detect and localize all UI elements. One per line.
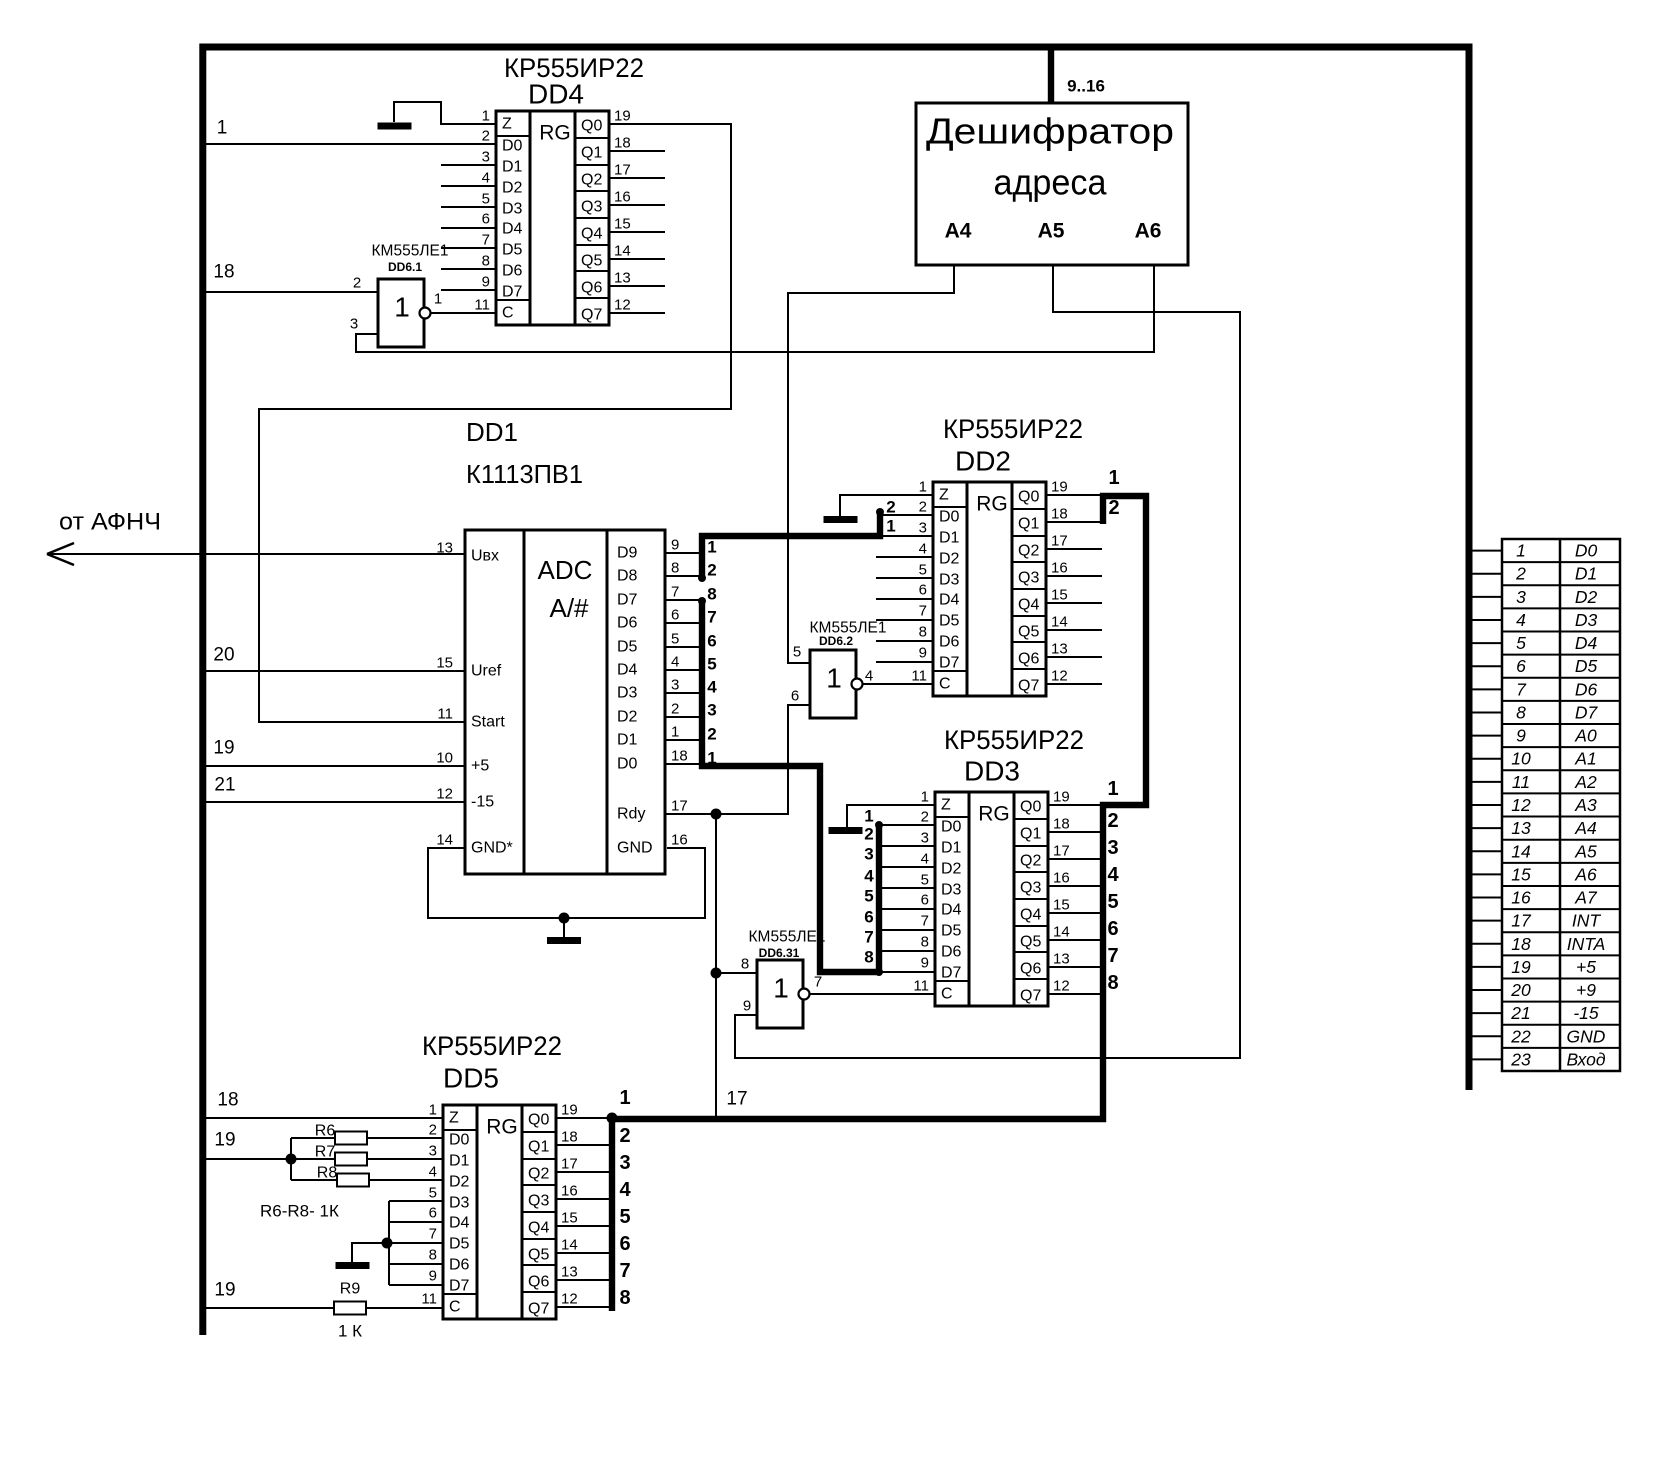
svg-text:Q4: Q4 bbox=[581, 226, 602, 243]
svg-text:D7: D7 bbox=[617, 592, 638, 609]
svg-text:7: 7 bbox=[921, 913, 929, 930]
svg-text:6: 6 bbox=[919, 582, 927, 599]
wire: DD2 output stub Q7 bbox=[1046, 683, 1102, 685]
svg-text:1: 1 bbox=[826, 663, 842, 694]
svg-text:17: 17 bbox=[561, 1156, 578, 1173]
svg-text:A6: A6 bbox=[1135, 220, 1162, 243]
svg-text:13: 13 bbox=[1511, 818, 1531, 838]
wire: DD3 output stub Q5 bbox=[1048, 939, 1103, 941]
svg-text:D3: D3 bbox=[449, 1195, 470, 1212]
svg-text:Z: Z bbox=[502, 116, 512, 133]
svg-text:22: 22 bbox=[1510, 1026, 1531, 1046]
svg-text:8: 8 bbox=[864, 948, 873, 967]
svg-text:D6: D6 bbox=[617, 615, 638, 632]
svg-text:D1: D1 bbox=[941, 840, 962, 857]
svg-text:7: 7 bbox=[707, 608, 716, 627]
svg-text:6: 6 bbox=[1516, 656, 1526, 676]
wire: DD3 output stub Q3 bbox=[1048, 885, 1103, 887]
svg-text:10: 10 bbox=[436, 750, 453, 767]
svg-text:6: 6 bbox=[864, 908, 873, 927]
svg-text:D5: D5 bbox=[502, 242, 523, 259]
svg-text:RG: RG bbox=[976, 493, 1008, 516]
svg-text:RG: RG bbox=[486, 1116, 518, 1139]
wire: DD3 input stub D4 bbox=[879, 908, 935, 910]
svg-text:21: 21 bbox=[214, 775, 235, 796]
svg-text:D2: D2 bbox=[939, 551, 960, 568]
svg-text:17: 17 bbox=[614, 162, 631, 179]
svg-text:D3: D3 bbox=[502, 201, 523, 218]
wire: DD1 output stub D4 bbox=[665, 669, 702, 671]
svg-text:C: C bbox=[939, 676, 951, 693]
wire: DD5 output stub Q4 bbox=[556, 1225, 612, 1227]
svg-text:13: 13 bbox=[614, 270, 631, 287]
svg-text:12: 12 bbox=[1053, 978, 1070, 995]
svg-text:12: 12 bbox=[1051, 668, 1068, 685]
svg-text:D8: D8 bbox=[617, 568, 638, 585]
svg-text:D9: D9 bbox=[617, 545, 638, 562]
wire: connector pin 14 stub bbox=[1469, 850, 1502, 852]
svg-text:17: 17 bbox=[726, 1089, 747, 1110]
svg-text:18: 18 bbox=[561, 1129, 578, 1146]
svg-text:КМ555ЛЕ1: КМ555ЛЕ1 bbox=[749, 929, 826, 946]
svg-text:19: 19 bbox=[1053, 789, 1070, 806]
wire: DD2 output stub Q2 bbox=[1046, 548, 1102, 550]
svg-text:A2: A2 bbox=[1574, 772, 1597, 792]
svg-text:Q0: Q0 bbox=[1018, 489, 1039, 506]
wire: connector pin 11 stub bbox=[1469, 781, 1502, 783]
svg-text:4: 4 bbox=[482, 170, 490, 187]
svg-text:D6: D6 bbox=[939, 634, 960, 651]
svg-text:4: 4 bbox=[865, 668, 873, 685]
svg-text:23: 23 bbox=[1510, 1049, 1531, 1069]
svg-text:2: 2 bbox=[919, 499, 927, 516]
wire: connector pin 3 stub bbox=[1469, 596, 1502, 598]
svg-text:D5: D5 bbox=[941, 923, 962, 940]
svg-text:19: 19 bbox=[214, 1130, 235, 1151]
svg-text:D3: D3 bbox=[939, 572, 960, 589]
svg-text:1: 1 bbox=[864, 807, 873, 826]
svg-text:5: 5 bbox=[707, 655, 716, 674]
svg-text:D1: D1 bbox=[449, 1153, 470, 1170]
ground symbol at DD4 pin Z bbox=[394, 102, 496, 124]
svg-text:2: 2 bbox=[429, 1122, 437, 1139]
svg-text:D6: D6 bbox=[941, 944, 962, 961]
wire: DD3 output stub Q1 bbox=[1048, 831, 1103, 833]
wire: connector pin 7 stub bbox=[1469, 688, 1502, 690]
wire: Rdy down to DD6.31 pin8 and INT bus bbox=[715, 814, 717, 1118]
wire: DD3 output stub Q0 bbox=[1048, 804, 1103, 806]
svg-text:D4: D4 bbox=[449, 1215, 470, 1232]
wire: DD1 output stub D3 bbox=[665, 692, 702, 694]
svg-text:17: 17 bbox=[1051, 533, 1068, 550]
wire: DD1 D9,D8 stubs bbox=[665, 552, 702, 554]
svg-text:5: 5 bbox=[619, 1206, 630, 1228]
svg-text:12: 12 bbox=[436, 786, 453, 803]
svg-text:D2: D2 bbox=[502, 180, 523, 197]
svg-text:19: 19 bbox=[561, 1102, 578, 1119]
junction on Rdy wire bbox=[711, 809, 722, 820]
svg-text:8: 8 bbox=[1107, 972, 1118, 994]
wire: A4 output to DD6.2 pin5 bbox=[788, 265, 954, 663]
wire: connector pin 23 stub bbox=[1469, 1058, 1502, 1060]
bus: DD1 D9,D8 to DD2 D0,D1 (thick) bbox=[702, 513, 880, 578]
svg-text:4: 4 bbox=[707, 678, 717, 697]
wire: DD4 output stub Q3 bbox=[609, 204, 665, 206]
svg-text:19: 19 bbox=[214, 1280, 235, 1301]
wire: DD1 output stub D5 bbox=[665, 646, 702, 648]
svg-text:R9: R9 bbox=[340, 1281, 361, 1298]
svg-text:1: 1 bbox=[921, 789, 929, 806]
svg-text:13: 13 bbox=[1051, 641, 1068, 658]
svg-text:Z: Z bbox=[939, 487, 949, 504]
wire: DD4 output stub Q6 bbox=[609, 285, 665, 287]
svg-text:2: 2 bbox=[671, 701, 679, 718]
inverter DD6.1 КМ555ЛЕ1 bbox=[350, 243, 449, 348]
svg-text:+5: +5 bbox=[1576, 957, 1596, 977]
svg-text:КМ555ЛЕ1: КМ555ЛЕ1 bbox=[372, 243, 449, 260]
svg-text:6: 6 bbox=[429, 1205, 437, 1222]
svg-text:D4: D4 bbox=[941, 902, 962, 919]
svg-text:Q0: Q0 bbox=[581, 118, 602, 135]
svg-text:C: C bbox=[941, 986, 953, 1003]
svg-text:5: 5 bbox=[864, 887, 873, 906]
svg-text:5: 5 bbox=[1516, 633, 1526, 653]
wire: DD4 output stub Q7 bbox=[609, 312, 665, 314]
wire: DD4 input stub D2 (pin 4) bbox=[441, 185, 496, 187]
svg-text:3: 3 bbox=[429, 1143, 437, 1160]
svg-text:18: 18 bbox=[217, 1090, 238, 1111]
svg-text:D3: D3 bbox=[1575, 610, 1598, 630]
svg-text:D0: D0 bbox=[941, 819, 962, 836]
svg-text:Q0: Q0 bbox=[1020, 799, 1041, 816]
bus: DD5 outputs (thick) bbox=[609, 1114, 615, 1311]
svg-text:D2: D2 bbox=[1575, 587, 1598, 607]
svg-text:1: 1 bbox=[394, 292, 410, 323]
wire: DD3 input stub D0 bbox=[879, 824, 935, 826]
svg-text:A6: A6 bbox=[1574, 864, 1597, 884]
wire: junction to DD6.31 pin8 bbox=[716, 972, 757, 974]
ground symbol at DD5 inputs bbox=[352, 1243, 387, 1262]
svg-text:2: 2 bbox=[707, 725, 716, 744]
svg-text:9: 9 bbox=[743, 998, 751, 1015]
svg-text:INTA: INTA bbox=[1567, 934, 1606, 954]
svg-text:7: 7 bbox=[1516, 679, 1527, 699]
svg-text:DD3: DD3 bbox=[964, 756, 1020, 787]
svg-text:3: 3 bbox=[1107, 837, 1118, 859]
svg-text:10: 10 bbox=[1511, 749, 1531, 769]
svg-text:1: 1 bbox=[217, 118, 228, 139]
svg-text:Q6: Q6 bbox=[581, 280, 602, 297]
svg-text:ADC: ADC bbox=[538, 555, 593, 585]
svg-text:6: 6 bbox=[707, 632, 716, 651]
svg-text:D7: D7 bbox=[1575, 702, 1599, 722]
svg-text:8: 8 bbox=[741, 956, 749, 973]
svg-text:16: 16 bbox=[671, 832, 688, 849]
svg-text:+5: +5 bbox=[471, 758, 489, 775]
svg-text:7: 7 bbox=[619, 1260, 630, 1282]
wire: connector pin 6 stub bbox=[1469, 665, 1502, 667]
svg-text:8: 8 bbox=[429, 1247, 437, 1264]
svg-text:7: 7 bbox=[864, 928, 873, 947]
svg-text:3: 3 bbox=[921, 830, 929, 847]
svg-text:8: 8 bbox=[671, 560, 679, 577]
wire: bus drop to address decoder bbox=[1048, 46, 1054, 104]
svg-text:16: 16 bbox=[561, 1183, 578, 1200]
svg-text:3: 3 bbox=[919, 520, 927, 537]
wire: connector pin 8 stub bbox=[1469, 711, 1502, 713]
svg-text:12: 12 bbox=[1511, 795, 1531, 815]
svg-text:Q1: Q1 bbox=[581, 145, 602, 162]
wire: DD2 output stub Q4 bbox=[1046, 602, 1102, 604]
svg-text:A/#: A/# bbox=[549, 593, 589, 623]
svg-text:17: 17 bbox=[671, 798, 688, 815]
svg-text:Q1: Q1 bbox=[1018, 516, 1039, 533]
svg-text:1: 1 bbox=[919, 479, 927, 496]
svg-text:14: 14 bbox=[436, 832, 453, 849]
ground symbol under DD1 bbox=[563, 918, 565, 939]
svg-text:Q5: Q5 bbox=[1018, 624, 1039, 641]
svg-text:A5: A5 bbox=[1038, 220, 1065, 243]
svg-text:2: 2 bbox=[482, 128, 490, 145]
svg-text:4: 4 bbox=[671, 654, 679, 671]
svg-text:11: 11 bbox=[1512, 772, 1530, 792]
svg-text:19: 19 bbox=[614, 108, 631, 125]
svg-text:Q5: Q5 bbox=[1020, 934, 1041, 951]
block: address decoder (Дешифратор адреса) bbox=[916, 103, 1188, 265]
svg-text:2: 2 bbox=[921, 809, 929, 826]
svg-text:Q6: Q6 bbox=[1020, 961, 1041, 978]
svg-text:Q5: Q5 bbox=[528, 1247, 549, 1264]
svg-text:8: 8 bbox=[1516, 702, 1526, 722]
svg-text:16: 16 bbox=[1051, 560, 1068, 577]
svg-text:Q2: Q2 bbox=[528, 1166, 549, 1183]
wire: A6 output to DD6.1 pin3 bbox=[356, 265, 1154, 352]
svg-text:9: 9 bbox=[671, 537, 679, 554]
svg-text:6: 6 bbox=[791, 688, 799, 705]
svg-text:1: 1 bbox=[886, 517, 895, 536]
svg-text:20: 20 bbox=[213, 645, 234, 666]
svg-text:Q3: Q3 bbox=[528, 1193, 549, 1210]
ground symbol at DD2 pin Z bbox=[840, 495, 933, 516]
wire: DD3 input stub D2 bbox=[879, 866, 935, 868]
svg-text:D4: D4 bbox=[1575, 633, 1598, 653]
wire: connector pin 13 stub bbox=[1469, 827, 1502, 829]
svg-text:Q3: Q3 bbox=[581, 199, 602, 216]
wire: DD5 output stub Q7 bbox=[556, 1306, 612, 1308]
wire: connector pin 16 stub bbox=[1469, 897, 1502, 899]
wire: DD4 input stub D5 (pin 7) bbox=[441, 247, 496, 249]
wire: DD2 input stub D2 bbox=[876, 556, 933, 558]
svg-text:1 К: 1 К bbox=[338, 1322, 362, 1341]
wire: DD3 output stub Q6 bbox=[1048, 966, 1103, 968]
inverter DD6.2 КМ555ЛЕ1 bbox=[791, 620, 887, 719]
wire: DD3 output stub Q2 bbox=[1048, 858, 1103, 860]
svg-text:R8: R8 bbox=[317, 1165, 338, 1182]
svg-text:11: 11 bbox=[913, 978, 929, 995]
wire: DD4 output stub Q1 bbox=[609, 150, 665, 152]
wire: DD6.1 output to DD4 C bbox=[430, 312, 496, 314]
svg-text:19: 19 bbox=[1051, 479, 1068, 496]
wire: DD2 input stub D4 bbox=[876, 598, 933, 600]
wire: DD2 D0,D1 inputs bbox=[880, 514, 933, 516]
svg-text:GND*: GND* bbox=[471, 840, 513, 857]
svg-text:14: 14 bbox=[614, 243, 631, 260]
svg-text:Q0: Q0 bbox=[528, 1112, 549, 1129]
svg-text:+9: +9 bbox=[1576, 980, 1596, 1000]
svg-text:Q7: Q7 bbox=[1018, 678, 1039, 695]
svg-text:D3: D3 bbox=[617, 685, 638, 702]
svg-text:DD1: DD1 bbox=[466, 417, 518, 447]
svg-text:Uвх: Uвх bbox=[471, 548, 499, 565]
svg-text:C: C bbox=[502, 305, 514, 322]
svg-text:D6: D6 bbox=[502, 263, 523, 280]
wire: connector pin 10 stub bbox=[1469, 758, 1502, 760]
svg-text:Q1: Q1 bbox=[1020, 826, 1041, 843]
svg-text:15: 15 bbox=[614, 216, 631, 233]
svg-text:Вход: Вход bbox=[1566, 1049, 1605, 1069]
svg-text:2: 2 bbox=[619, 1125, 630, 1147]
svg-text:11: 11 bbox=[474, 297, 490, 314]
svg-text:D6: D6 bbox=[449, 1257, 470, 1274]
svg-text:D0: D0 bbox=[449, 1132, 470, 1149]
svg-text:16: 16 bbox=[1511, 888, 1531, 908]
svg-text:D7: D7 bbox=[502, 284, 523, 301]
svg-text:D1: D1 bbox=[502, 159, 523, 176]
svg-text:Z: Z bbox=[941, 797, 951, 814]
svg-text:19: 19 bbox=[213, 738, 234, 759]
svg-text:9: 9 bbox=[429, 1268, 437, 1285]
svg-text:2: 2 bbox=[886, 498, 895, 517]
svg-text:R6-R8- 1К: R6-R8- 1К bbox=[260, 1202, 339, 1221]
wire: DD5 output stub Q6 bbox=[556, 1279, 612, 1281]
svg-text:3: 3 bbox=[350, 316, 358, 333]
svg-text:Q2: Q2 bbox=[1020, 853, 1041, 870]
svg-text:Q6: Q6 bbox=[1018, 651, 1039, 668]
wire: DD3 input stub D5 bbox=[879, 929, 935, 931]
svg-text:D0: D0 bbox=[1575, 541, 1598, 561]
svg-text:4: 4 bbox=[1516, 610, 1526, 630]
svg-text:7: 7 bbox=[482, 232, 490, 249]
svg-text:12: 12 bbox=[561, 1291, 578, 1308]
wire: DD5 output stub Q2 bbox=[556, 1171, 612, 1173]
svg-text:DD2: DD2 bbox=[955, 446, 1011, 477]
wire: DD5 output stub Q0 bbox=[556, 1117, 612, 1119]
svg-text:D5: D5 bbox=[449, 1236, 470, 1253]
wire: connector pin 1 stub bbox=[1469, 550, 1502, 552]
wire: connector pin 19 stub bbox=[1469, 966, 1502, 968]
svg-text:Q3: Q3 bbox=[1018, 570, 1039, 587]
svg-text:15: 15 bbox=[1053, 897, 1070, 914]
svg-text:4: 4 bbox=[921, 851, 929, 868]
svg-text:18: 18 bbox=[1051, 506, 1068, 523]
svg-text:Q6: Q6 bbox=[528, 1274, 549, 1291]
svg-text:15: 15 bbox=[1511, 864, 1531, 884]
svg-text:18: 18 bbox=[1053, 816, 1070, 833]
svg-text:DD5: DD5 bbox=[443, 1063, 499, 1094]
svg-text:D0: D0 bbox=[502, 138, 523, 155]
svg-text:Q4: Q4 bbox=[1018, 597, 1039, 614]
svg-text:Q7: Q7 bbox=[1020, 988, 1041, 1005]
svg-text:6: 6 bbox=[921, 892, 929, 909]
svg-text:5: 5 bbox=[921, 872, 929, 889]
svg-text:8: 8 bbox=[482, 253, 490, 270]
svg-text:3: 3 bbox=[671, 677, 679, 694]
svg-text:DD6.1: DD6.1 bbox=[388, 260, 422, 274]
wire: DD2 Q0,Q1 to output bus bbox=[1046, 494, 1103, 496]
wire: DD2 output stub Q6 bbox=[1046, 656, 1102, 658]
svg-text:3: 3 bbox=[482, 149, 490, 166]
svg-text:13: 13 bbox=[1053, 951, 1070, 968]
wire: left bus line bbox=[199, 44, 206, 1336]
svg-text:D0: D0 bbox=[939, 509, 960, 526]
wire: DD5 output stub Q3 bbox=[556, 1198, 612, 1200]
wire: connector pin 4 stub bbox=[1469, 619, 1502, 621]
wire: DD4 output stub Q5 bbox=[609, 258, 665, 260]
wire: DD3 output stub Q4 bbox=[1048, 912, 1103, 914]
svg-text:15: 15 bbox=[561, 1210, 578, 1227]
svg-text:1: 1 bbox=[434, 291, 442, 308]
svg-text:Q2: Q2 bbox=[1018, 543, 1039, 560]
svg-text:8: 8 bbox=[919, 624, 927, 641]
svg-text:19: 19 bbox=[1511, 957, 1531, 977]
svg-text:от АФНЧ: от АФНЧ bbox=[59, 509, 161, 536]
svg-text:К1113ПВ1: К1113ПВ1 bbox=[466, 459, 583, 489]
svg-text:17: 17 bbox=[1053, 843, 1070, 860]
wire: DD2 input stub D7 bbox=[876, 661, 933, 663]
svg-text:12: 12 bbox=[614, 297, 631, 314]
svg-text:INT: INT bbox=[1572, 911, 1602, 931]
connector pin table bbox=[1502, 539, 1620, 1071]
svg-text:5: 5 bbox=[793, 644, 801, 661]
svg-text:4: 4 bbox=[919, 541, 927, 558]
svg-text:D6: D6 bbox=[1575, 679, 1598, 699]
svg-text:1: 1 bbox=[1107, 778, 1118, 800]
svg-text:8: 8 bbox=[619, 1287, 630, 1309]
svg-text:Q3: Q3 bbox=[1020, 880, 1041, 897]
svg-text:15: 15 bbox=[1051, 587, 1068, 604]
svg-text:5: 5 bbox=[919, 562, 927, 579]
junction on GND wire bbox=[559, 913, 570, 924]
svg-text:6: 6 bbox=[482, 211, 490, 228]
svg-text:A4: A4 bbox=[1574, 818, 1597, 838]
svg-text:DD6.31: DD6.31 bbox=[759, 946, 800, 960]
svg-text:D1: D1 bbox=[617, 732, 638, 749]
svg-text:17: 17 bbox=[1511, 911, 1532, 931]
wire: DD4 input stub D7 (pin 9) bbox=[441, 289, 496, 291]
wire: DD1 output stub D6 bbox=[665, 622, 702, 624]
junction at R6-R8 feed bbox=[286, 1154, 297, 1165]
svg-text:КР555ИР22: КР555ИР22 bbox=[943, 414, 1083, 444]
svg-text:D2: D2 bbox=[941, 861, 962, 878]
svg-text:Rdy: Rdy bbox=[617, 806, 645, 823]
svg-text:11: 11 bbox=[437, 706, 453, 723]
wire: DD2 input stub D3 bbox=[876, 577, 933, 579]
svg-text:1: 1 bbox=[619, 1087, 630, 1109]
wire: DD1 output stub D0 bbox=[665, 763, 702, 765]
svg-text:15: 15 bbox=[436, 655, 453, 672]
svg-text:13: 13 bbox=[561, 1264, 578, 1281]
svg-text:D5: D5 bbox=[939, 613, 960, 630]
svg-text:16: 16 bbox=[614, 189, 631, 206]
svg-text:D5: D5 bbox=[617, 639, 638, 656]
wire: DD5 input stub D3 bbox=[389, 1200, 443, 1202]
svg-text:4: 4 bbox=[619, 1179, 631, 1201]
svg-text:D5: D5 bbox=[1575, 656, 1598, 676]
svg-text:Дешифратор: Дешифратор bbox=[926, 111, 1174, 152]
wire: DD1 output stub D7 bbox=[665, 599, 702, 601]
svg-text:18: 18 bbox=[671, 748, 688, 765]
svg-text:21: 21 bbox=[1510, 1003, 1530, 1023]
